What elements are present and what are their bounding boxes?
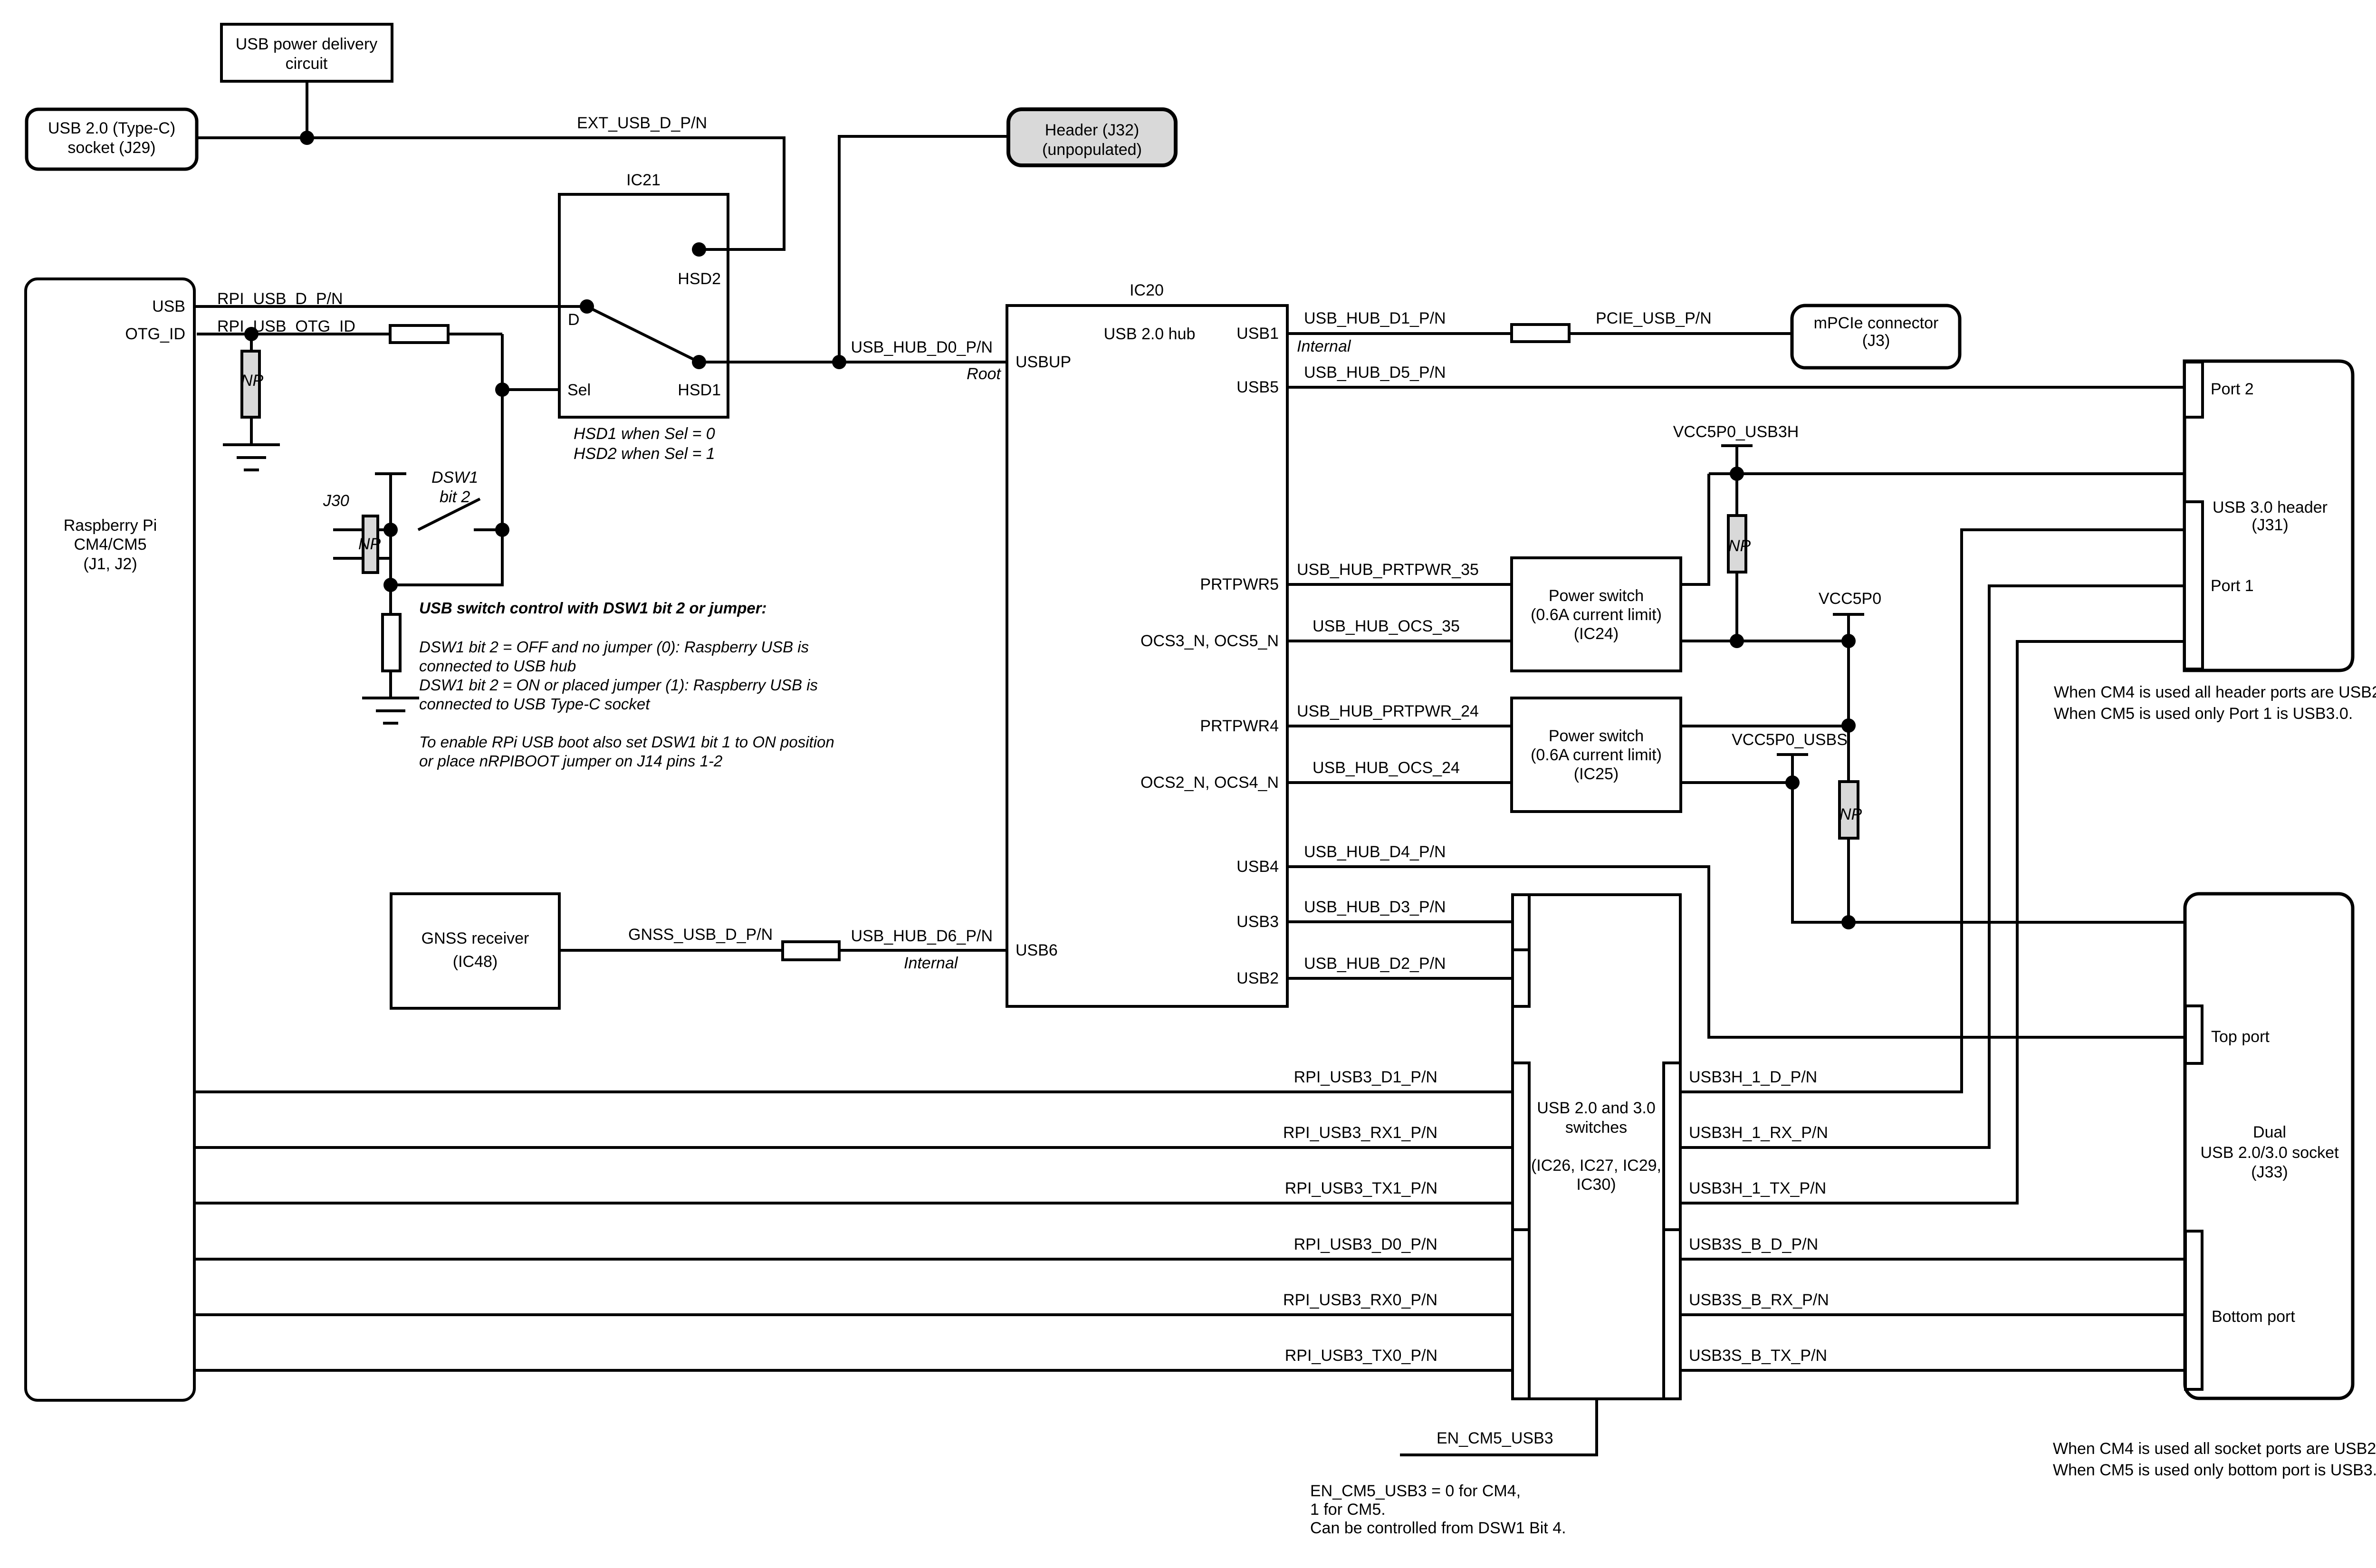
svg-text:USB_HUB_D0_P/N: USB_HUB_D0_P/N bbox=[851, 338, 993, 356]
svg-text:(0.6A current limit): (0.6A current limit) bbox=[1531, 606, 1662, 624]
svg-text:USB power delivery: USB power delivery bbox=[236, 35, 378, 53]
svg-text:NP: NP bbox=[241, 372, 264, 390]
svg-text:USB 3.0 header: USB 3.0 header bbox=[2213, 498, 2328, 516]
svg-text:USB_HUB_OCS_24: USB_HUB_OCS_24 bbox=[1313, 759, 1460, 777]
svg-text:NP: NP bbox=[1839, 805, 1862, 823]
svg-text:Raspberry Pi: Raspberry Pi bbox=[64, 516, 157, 535]
svg-text:RPI_USB3_D0_P/N: RPI_USB3_D0_P/N bbox=[1294, 1235, 1437, 1253]
svg-text:PRTPWR5: PRTPWR5 bbox=[1200, 575, 1279, 593]
svg-text:connected to USB hub: connected to USB hub bbox=[419, 657, 576, 675]
svg-text:NP: NP bbox=[1728, 537, 1751, 555]
svg-text:USB1: USB1 bbox=[1236, 325, 1279, 343]
svg-text:1 for CM5.: 1 for CM5. bbox=[1310, 1501, 1386, 1519]
svg-text:USB_HUB_PRTPWR_35: USB_HUB_PRTPWR_35 bbox=[1297, 561, 1479, 579]
svg-text:RPI_USB3_D1_P/N: RPI_USB3_D1_P/N bbox=[1294, 1068, 1437, 1086]
svg-text:USB_HUB_D2_P/N: USB_HUB_D2_P/N bbox=[1304, 955, 1446, 973]
svg-text:RPI_USB3_TX0_P/N: RPI_USB3_TX0_P/N bbox=[1285, 1347, 1437, 1365]
svg-text:RPI_USB3_RX1_P/N: RPI_USB3_RX1_P/N bbox=[1283, 1124, 1437, 1142]
svg-text:EN_CM5_USB3 = 0 for CM4,: EN_CM5_USB3 = 0 for CM4, bbox=[1310, 1482, 1521, 1500]
svg-text:PCIE_USB_P/N: PCIE_USB_P/N bbox=[1596, 309, 1712, 327]
svg-text:HSD2 when Sel = 1: HSD2 when Sel = 1 bbox=[574, 445, 715, 463]
svg-text:USB3H_1_RX_P/N: USB3H_1_RX_P/N bbox=[1689, 1124, 1828, 1142]
svg-text:mPCIe connector: mPCIe connector bbox=[1814, 314, 1939, 332]
svg-text:USBUP: USBUP bbox=[1016, 353, 1071, 371]
svg-text:USB_HUB_PRTPWR_24: USB_HUB_PRTPWR_24 bbox=[1297, 702, 1479, 720]
svg-text:CM4/CM5: CM4/CM5 bbox=[74, 535, 146, 554]
svg-text:(J1, J2): (J1, J2) bbox=[83, 555, 137, 573]
svg-text:USB4: USB4 bbox=[1236, 858, 1279, 876]
svg-text:USB6: USB6 bbox=[1016, 941, 1058, 959]
svg-text:circuit: circuit bbox=[286, 55, 328, 73]
svg-text:USB3H_1_D_P/N: USB3H_1_D_P/N bbox=[1689, 1068, 1817, 1086]
svg-text:HSD2: HSD2 bbox=[678, 270, 721, 288]
svg-text:Port 2: Port 2 bbox=[2211, 380, 2254, 398]
svg-text:(IC48): (IC48) bbox=[453, 953, 498, 971]
svg-text:USB5: USB5 bbox=[1236, 378, 1279, 396]
svg-text:NP: NP bbox=[358, 535, 381, 553]
svg-text:GNSS receiver: GNSS receiver bbox=[422, 929, 529, 947]
svg-text:When CM4 is used all socket po: When CM4 is used all socket ports are US… bbox=[2053, 1440, 2376, 1458]
svg-text:USB_HUB_D3_P/N: USB_HUB_D3_P/N bbox=[1304, 898, 1446, 916]
svg-text:(IC26, IC27, IC29,: (IC26, IC27, IC29, bbox=[1531, 1157, 1661, 1175]
svg-text:USB2: USB2 bbox=[1236, 969, 1279, 987]
svg-text:When CM4 is used all header po: When CM4 is used all header ports are US… bbox=[2054, 683, 2376, 701]
svg-text:USB3S_B_RX_P/N: USB3S_B_RX_P/N bbox=[1689, 1291, 1829, 1309]
svg-text:(J3): (J3) bbox=[1862, 332, 1890, 350]
svg-text:When CM5 is used only bottom p: When CM5 is used only bottom port is USB… bbox=[2053, 1461, 2376, 1479]
svg-text:Can be controlled from DSW1 Bi: Can be controlled from DSW1 Bit 4. bbox=[1310, 1519, 1566, 1537]
svg-text:socket (J29): socket (J29) bbox=[67, 139, 155, 157]
svg-text:VCC5P0_USB3H: VCC5P0_USB3H bbox=[1673, 423, 1799, 441]
svg-text:Power switch: Power switch bbox=[1549, 587, 1644, 605]
svg-text:HSD1: HSD1 bbox=[678, 381, 721, 399]
svg-text:Header (J32): Header (J32) bbox=[1045, 121, 1139, 139]
svg-text:(unpopulated): (unpopulated) bbox=[1042, 141, 1142, 159]
svg-text:USB 2.0 (Type-C): USB 2.0 (Type-C) bbox=[48, 119, 175, 137]
svg-text:EN_CM5_USB3: EN_CM5_USB3 bbox=[1437, 1429, 1553, 1447]
svg-text:DSW1 bit 2 = ON or placed jump: DSW1 bit 2 = ON or placed jumper (1): Ra… bbox=[419, 676, 818, 694]
svg-text:RPI_USB_D_P/N: RPI_USB_D_P/N bbox=[217, 290, 343, 308]
svg-text:USB 2.0 hub: USB 2.0 hub bbox=[1104, 325, 1196, 343]
svg-text:PRTPWR4: PRTPWR4 bbox=[1200, 717, 1279, 735]
svg-text:EXT_USB_D_P/N: EXT_USB_D_P/N bbox=[577, 114, 707, 132]
svg-text:or place nRPIBOOT jumper on J1: or place nRPIBOOT jumper on J14 pins 1-2 bbox=[419, 752, 722, 770]
svg-text:USB3S_B_TX_P/N: USB3S_B_TX_P/N bbox=[1689, 1347, 1827, 1365]
svg-text:Top port: Top port bbox=[2211, 1028, 2270, 1046]
svg-text:D: D bbox=[568, 311, 580, 329]
svg-text:(J33): (J33) bbox=[2251, 1163, 2288, 1181]
svg-text:Internal: Internal bbox=[904, 954, 958, 972]
svg-text:(IC24): (IC24) bbox=[1574, 625, 1619, 643]
svg-text:USB_HUB_D4_P/N: USB_HUB_D4_P/N bbox=[1304, 843, 1446, 861]
svg-text:Dual: Dual bbox=[2253, 1123, 2286, 1141]
svg-text:USB 2.0 and 3.0: USB 2.0 and 3.0 bbox=[1537, 1099, 1656, 1117]
svg-text:(0.6A current limit): (0.6A current limit) bbox=[1531, 746, 1662, 764]
svg-text:bit 2: bit 2 bbox=[440, 488, 470, 506]
svg-text:USB_HUB_D5_P/N: USB_HUB_D5_P/N bbox=[1304, 363, 1446, 382]
svg-text:J30: J30 bbox=[323, 492, 349, 510]
svg-text:USB_HUB_OCS_35: USB_HUB_OCS_35 bbox=[1313, 617, 1460, 635]
svg-text:USB switch control with DSW1 b: USB switch control with DSW1 bit 2 or ju… bbox=[419, 599, 767, 617]
svg-text:Port 1: Port 1 bbox=[2211, 577, 2254, 595]
svg-text:Root: Root bbox=[967, 365, 1001, 383]
svg-text:IC21: IC21 bbox=[626, 171, 661, 189]
svg-text:Power switch: Power switch bbox=[1549, 727, 1644, 745]
svg-text:USB3S_B_D_P/N: USB3S_B_D_P/N bbox=[1689, 1235, 1818, 1253]
svg-text:OTG_ID: OTG_ID bbox=[125, 325, 185, 343]
svg-text:Bottom port: Bottom port bbox=[2212, 1308, 2295, 1326]
svg-text:IC20: IC20 bbox=[1130, 281, 1164, 299]
svg-text:RPI_USB3_TX1_P/N: RPI_USB3_TX1_P/N bbox=[1285, 1179, 1437, 1197]
svg-text:RPI_USB_OTG_ID: RPI_USB_OTG_ID bbox=[217, 317, 355, 335]
svg-text:Sel: Sel bbox=[567, 381, 591, 399]
svg-text:GNSS_USB_D_P/N: GNSS_USB_D_P/N bbox=[628, 926, 773, 944]
svg-text:Internal: Internal bbox=[1297, 337, 1351, 355]
svg-text:USB_HUB_D1_P/N: USB_HUB_D1_P/N bbox=[1304, 309, 1446, 327]
svg-text:HSD1 when Sel = 0: HSD1 when Sel = 0 bbox=[574, 425, 715, 443]
svg-text:connected to USB Type-C socket: connected to USB Type-C socket bbox=[419, 695, 651, 713]
svg-text:IC30): IC30) bbox=[1576, 1176, 1616, 1194]
svg-text:DSW1: DSW1 bbox=[431, 468, 478, 487]
svg-text:When CM5 is used only Port 1 i: When CM5 is used only Port 1 is USB3.0. bbox=[2054, 705, 2353, 723]
svg-text:To enable RPi USB boot also se: To enable RPi USB boot also set DSW1 bit… bbox=[419, 733, 834, 751]
svg-text:USB3: USB3 bbox=[1236, 913, 1279, 931]
svg-text:VCC5P0_USBS: VCC5P0_USBS bbox=[1732, 731, 1848, 749]
svg-text:USB: USB bbox=[152, 297, 185, 316]
svg-text:VCC5P0: VCC5P0 bbox=[1819, 590, 1881, 608]
svg-text:(J31): (J31) bbox=[2251, 516, 2288, 534]
svg-text:OCS3_N, OCS5_N: OCS3_N, OCS5_N bbox=[1140, 632, 1279, 650]
svg-text:switches: switches bbox=[1565, 1119, 1627, 1137]
svg-text:(IC25): (IC25) bbox=[1574, 765, 1619, 783]
svg-text:DSW1 bit 2 = OFF and no jumper: DSW1 bit 2 = OFF and no jumper (0): Rasp… bbox=[419, 638, 809, 656]
svg-text:USB3H_1_TX_P/N: USB3H_1_TX_P/N bbox=[1689, 1179, 1826, 1197]
svg-text:OCS2_N, OCS4_N: OCS2_N, OCS4_N bbox=[1140, 774, 1279, 792]
svg-text:RPI_USB3_RX0_P/N: RPI_USB3_RX0_P/N bbox=[1283, 1291, 1437, 1309]
svg-text:USB_HUB_D6_P/N: USB_HUB_D6_P/N bbox=[851, 927, 993, 945]
svg-text:USB 2.0/3.0 socket: USB 2.0/3.0 socket bbox=[2200, 1144, 2339, 1162]
